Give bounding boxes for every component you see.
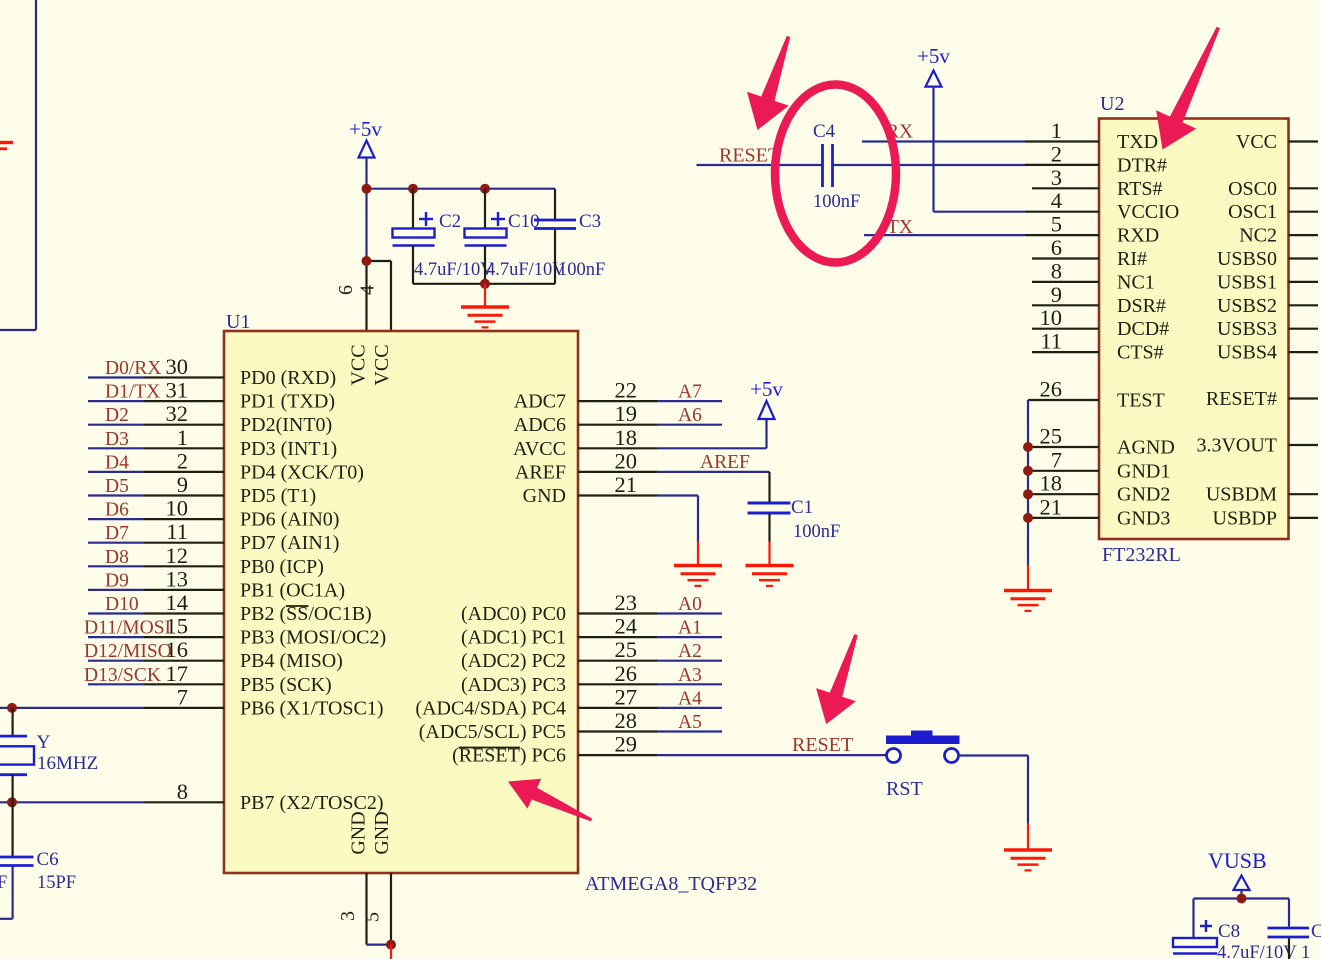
wire	[390, 945, 392, 959]
pin 10 PD6 (AIN0)	[166, 496, 340, 531]
svg-text:D11/MOSI: D11/MOSI	[84, 618, 171, 639]
wire	[88, 447, 224, 449]
svg-text:25: 25	[615, 637, 638, 662]
svg-text:AREF: AREF	[515, 461, 566, 483]
svg-text:C6: C6	[37, 849, 59, 870]
wire	[0, 707, 224, 709]
node	[386, 940, 396, 950]
pin 9 PD5 (T1)	[177, 472, 316, 507]
wire	[959, 756, 1029, 824]
svg-text:23: 23	[615, 590, 638, 615]
svg-text:VUSB: VUSB	[1208, 848, 1267, 873]
pin 21 GND	[523, 472, 637, 507]
svg-text:AGND: AGND	[1117, 437, 1175, 459]
wire	[1025, 211, 1099, 213]
wire	[578, 400, 722, 402]
svg-text:C1: C1	[791, 497, 813, 518]
node	[1237, 894, 1247, 904]
svg-text:21: 21	[615, 472, 638, 497]
annotation arrow	[508, 779, 592, 822]
svg-text:PB4 (MISO): PB4 (MISO)	[240, 650, 343, 672]
pin 9 DSR#	[1051, 282, 1166, 317]
pin 1 TXD	[1051, 118, 1158, 153]
wire	[1025, 140, 1099, 142]
wire	[88, 589, 224, 591]
svg-text:A0: A0	[678, 594, 702, 615]
wire	[365, 158, 367, 189]
wire	[1289, 328, 1319, 330]
svg-text:+5v: +5v	[750, 377, 783, 401]
svg-text:DSR#: DSR#	[1117, 295, 1166, 317]
ground	[1004, 565, 1052, 611]
svg-text:(ADC0) PC0: (ADC0) PC0	[461, 603, 566, 625]
wire	[1025, 164, 1099, 166]
wire	[934, 87, 1026, 212]
svg-text:5: 5	[362, 912, 384, 922]
svg-text:3: 3	[337, 911, 359, 921]
svg-text:USBDM: USBDM	[1206, 484, 1277, 506]
svg-text:PB7 (X2/TOSC2): PB7 (X2/TOSC2)	[240, 792, 384, 814]
wire	[1289, 304, 1319, 306]
wire	[578, 494, 657, 496]
svg-text:7: 7	[177, 684, 188, 709]
wire	[1028, 446, 1099, 448]
svg-text:(ADC3) PC3: (ADC3) PC3	[461, 674, 566, 696]
svg-text:D13/SCK: D13/SCK	[84, 665, 161, 686]
wire	[1289, 281, 1319, 283]
pin 32 PD2(INT0)	[166, 401, 333, 436]
svg-text:A7: A7	[678, 382, 702, 403]
svg-text:USBS3: USBS3	[1217, 318, 1277, 340]
svg-text:TEST: TEST	[1117, 390, 1165, 412]
pin 20 AREF	[515, 448, 637, 483]
wire	[578, 447, 657, 449]
ground	[1004, 824, 1052, 871]
svg-text:GND2: GND2	[1117, 484, 1170, 506]
mcu U1	[224, 331, 578, 873]
svg-text:24: 24	[615, 614, 638, 639]
svg-text:PB5 (SCK): PB5 (SCK)	[240, 674, 332, 696]
pin 25 AGND	[1040, 424, 1175, 459]
svg-text:21: 21	[1040, 494, 1063, 519]
wire	[88, 542, 224, 544]
pin 17 PB5 (SCK)	[166, 661, 332, 696]
svg-text:D7: D7	[105, 523, 129, 544]
svg-text:D9: D9	[105, 570, 129, 591]
wire	[88, 636, 224, 638]
wire	[578, 636, 722, 638]
pin 2 DTR#	[1051, 141, 1167, 176]
pin 27 (ADC4/SDA) PC4	[415, 684, 637, 719]
wire	[1028, 493, 1099, 495]
pin 19 ADC6	[514, 401, 637, 436]
wire	[1289, 493, 1319, 495]
svg-text:+5v: +5v	[917, 44, 950, 68]
svg-text:USBDP: USBDP	[1213, 507, 1277, 529]
pin 28 (ADC5/SCL) PC5	[419, 708, 637, 743]
capacitor C6	[0, 802, 76, 919]
pin 6 RI#	[1051, 235, 1147, 270]
wire	[1289, 397, 1319, 399]
pin 24 (ADC1) PC1	[461, 614, 637, 649]
svg-text:16MHZ: 16MHZ	[37, 753, 98, 774]
wire	[657, 419, 767, 448]
svg-text:9: 9	[177, 472, 188, 497]
svg-text:D5: D5	[105, 476, 129, 497]
wire	[1032, 187, 1099, 189]
wire	[657, 472, 770, 502]
pin 14 PB2 (SS/OC1B)	[166, 590, 372, 625]
svg-text:USBS0: USBS0	[1217, 248, 1277, 270]
wire	[88, 518, 224, 520]
capacitor C4	[813, 121, 860, 212]
svg-text:U1: U1	[226, 311, 250, 333]
svg-text:A2: A2	[678, 641, 702, 662]
svg-text:FT232RL: FT232RL	[1102, 544, 1181, 566]
node	[362, 256, 372, 266]
svg-text:D0/RX: D0/RX	[105, 358, 161, 379]
wire	[1027, 400, 1029, 565]
node	[1023, 513, 1033, 523]
svg-text:VCC: VCC	[348, 344, 370, 385]
svg-text:ADC7: ADC7	[514, 391, 566, 413]
wire	[88, 400, 224, 402]
svg-text:100nF: 100nF	[793, 522, 840, 542]
svg-text:DCD#: DCD#	[1117, 318, 1169, 340]
svg-text:NC2: NC2	[1239, 225, 1277, 247]
wire	[697, 164, 823, 166]
wire	[578, 471, 657, 473]
wire	[578, 707, 722, 709]
svg-text:ATMEGA8_TQFP32: ATMEGA8_TQFP32	[585, 873, 757, 895]
svg-text:RESET: RESET	[719, 145, 780, 167]
svg-text:5: 5	[1051, 212, 1062, 237]
svg-text:11: 11	[1040, 329, 1062, 354]
pin 26 (ADC3) PC3	[461, 661, 637, 696]
wire	[1289, 517, 1319, 519]
wire	[367, 188, 556, 190]
pin 25 (ADC2) PC2	[461, 637, 637, 672]
pin 3 RTS#	[1051, 165, 1163, 200]
svg-text:D2: D2	[105, 405, 129, 426]
pin 18 AVCC	[513, 425, 637, 460]
wire	[0, 801, 224, 803]
svg-text:9: 9	[1051, 282, 1062, 307]
svg-text:D6: D6	[105, 500, 129, 521]
svg-text:4.7uF/10V 1: 4.7uF/10V 1	[1217, 943, 1310, 959]
svg-text:VCC: VCC	[1236, 131, 1277, 153]
svg-text:12: 12	[166, 543, 189, 568]
svg-text:C3: C3	[579, 211, 601, 232]
pin 30 PD0 (RXD)	[166, 354, 337, 389]
wire	[88, 683, 224, 685]
svg-text:4: 4	[357, 285, 379, 295]
node	[7, 703, 17, 713]
wire	[578, 660, 722, 662]
wire	[1289, 187, 1319, 189]
pin 31 PD1 (TXD)	[166, 378, 336, 413]
wire	[1289, 257, 1319, 259]
svg-text:4.7uF/10V: 4.7uF/10V	[414, 260, 494, 280]
power +5v	[917, 44, 950, 87]
wire	[1028, 517, 1099, 519]
wire	[578, 612, 722, 614]
wire	[88, 494, 224, 496]
svg-text:PB0 (ICP): PB0 (ICP)	[240, 556, 324, 578]
wire	[657, 496, 698, 542]
svg-text:GND: GND	[523, 485, 566, 507]
svg-text:15PF: 15PF	[37, 873, 76, 893]
crystal Y 16MHZ	[0, 708, 98, 802]
svg-text:A4: A4	[678, 688, 702, 709]
wire	[1032, 281, 1099, 283]
svg-text:OSC1: OSC1	[1228, 201, 1277, 223]
svg-text:USBS1: USBS1	[1217, 271, 1277, 293]
svg-text:25: 25	[1040, 424, 1063, 449]
capacitor C1	[748, 497, 841, 542]
wire	[578, 424, 722, 426]
svg-text:PD0 (RXD): PD0 (RXD)	[240, 367, 336, 389]
svg-text:AVCC: AVCC	[513, 438, 566, 460]
svg-text:28: 28	[615, 708, 638, 733]
svg-text:8: 8	[177, 779, 188, 804]
wire	[833, 164, 1026, 166]
svg-text:15PF: 15PF	[0, 873, 7, 893]
node	[1023, 466, 1033, 476]
pin 23 (ADC0) PC0	[461, 590, 637, 625]
pin 7 PB6 (X1/TOSC1)	[177, 684, 384, 719]
svg-text:(ADC1) PC1: (ADC1) PC1	[461, 627, 566, 649]
svg-text:ADC6: ADC6	[514, 414, 566, 436]
svg-text:31: 31	[166, 378, 189, 403]
wire	[88, 471, 224, 473]
pin 11 PD7 (AIN1)	[166, 519, 339, 554]
wire	[1194, 890, 1290, 938]
svg-text:RESET: RESET	[792, 734, 853, 756]
svg-text:6: 6	[335, 285, 357, 295]
capacitor C2	[393, 189, 495, 284]
svg-text:17: 17	[166, 661, 189, 686]
wire	[1025, 234, 1099, 236]
wire	[1028, 399, 1099, 401]
pushbutton RST	[886, 731, 960, 801]
svg-text:(ADC4/SDA) PC4: (ADC4/SDA) PC4	[415, 697, 566, 719]
svg-text:RESET#: RESET#	[1206, 388, 1277, 410]
svg-text:3.3VOUT: 3.3VOUT	[1196, 435, 1277, 457]
svg-text:D1/TX: D1/TX	[105, 382, 160, 403]
pin 26 TEST	[1040, 377, 1165, 412]
svg-text:DTR#: DTR#	[1117, 154, 1167, 176]
pin 15 PB3 (MOSI/OC2)	[166, 614, 387, 649]
svg-text:CTS#: CTS#	[1117, 342, 1164, 364]
wire	[1289, 444, 1319, 446]
wire	[864, 234, 1025, 236]
wire	[1032, 304, 1099, 306]
svg-text:32: 32	[166, 401, 189, 426]
pin 5 RXD	[1051, 212, 1159, 247]
wire	[367, 261, 392, 331]
svg-text:RST: RST	[886, 778, 923, 800]
svg-text:GND: GND	[371, 811, 393, 854]
svg-text:29: 29	[615, 732, 638, 757]
svg-text:AREF: AREF	[700, 452, 750, 473]
power +5v	[750, 377, 783, 419]
node	[1023, 489, 1033, 499]
svg-text:3: 3	[1051, 165, 1062, 190]
capacitor C3	[534, 189, 605, 284]
svg-text:1: 1	[177, 425, 188, 450]
capacitor C9	[1268, 921, 1321, 959]
svg-text:OSC0: OSC0	[1228, 178, 1277, 200]
svg-text:GND1: GND1	[1117, 460, 1170, 482]
svg-text:RXD: RXD	[1117, 225, 1159, 247]
wire	[578, 683, 722, 685]
node	[362, 184, 372, 194]
svg-text:(ADC2) PC2: (ADC2) PC2	[461, 650, 566, 672]
svg-text:PD2(INT0): PD2(INT0)	[240, 414, 332, 436]
svg-text:GND: GND	[348, 811, 370, 854]
wire	[413, 283, 555, 285]
pin 2 PD4 (XCK/T0)	[177, 448, 364, 483]
pin 1 PD3 (INT1)	[177, 425, 337, 460]
svg-text:6: 6	[1051, 235, 1062, 260]
svg-text:C: C	[1311, 921, 1321, 942]
node	[7, 797, 17, 807]
svg-text:PD7 (AIN1): PD7 (AIN1)	[240, 532, 339, 554]
wire	[1032, 328, 1099, 330]
node	[480, 279, 490, 289]
svg-text:18: 18	[1040, 471, 1063, 496]
wire	[1289, 234, 1319, 236]
wire	[88, 660, 224, 662]
annotation arrow	[747, 36, 790, 130]
wire	[1289, 351, 1319, 353]
svg-text:11: 11	[166, 519, 188, 544]
wire	[657, 754, 887, 756]
wire	[1289, 211, 1319, 213]
svg-text:U2: U2	[1100, 93, 1124, 115]
power VUSB	[1208, 848, 1267, 890]
svg-text:D4: D4	[105, 452, 129, 473]
svg-text:NC1: NC1	[1117, 271, 1155, 293]
svg-text:20: 20	[615, 448, 638, 473]
svg-text:PB1 (OC1A): PB1 (OC1A)	[240, 579, 345, 601]
ground	[674, 542, 722, 586]
wire	[88, 424, 224, 426]
pin 8 PB7 (X2/TOSC2)	[177, 779, 384, 814]
wire	[365, 189, 367, 261]
svg-text:13: 13	[166, 566, 189, 591]
wire	[1032, 351, 1099, 353]
wire	[88, 376, 224, 378]
pin 4 VCCIO	[1051, 188, 1179, 223]
svg-text:2: 2	[177, 448, 188, 473]
svg-text:PD6 (AIN0): PD6 (AIN0)	[240, 509, 339, 531]
node	[480, 184, 490, 194]
annotation ellipse	[775, 85, 896, 263]
overline SS	[286, 605, 309, 607]
wire	[862, 140, 1025, 142]
ground	[0, 143, 13, 149]
svg-text:RI#: RI#	[1117, 248, 1147, 270]
svg-text:27: 27	[615, 684, 638, 709]
node	[408, 184, 418, 194]
svg-text:Y: Y	[37, 732, 51, 753]
svg-text:(ADC5/SCL) PC5: (ADC5/SCL) PC5	[419, 721, 566, 743]
svg-text:VCCIO: VCCIO	[1117, 201, 1179, 223]
wire	[578, 754, 657, 756]
svg-text:D12/MISO: D12/MISO	[84, 641, 172, 662]
svg-text:PD1 (TXD): PD1 (TXD)	[240, 391, 335, 413]
svg-text:26: 26	[615, 661, 638, 686]
svg-text:VCC: VCC	[371, 344, 393, 385]
svg-text:A6: A6	[678, 405, 702, 426]
svg-text:PB3 (MOSI/OC2): PB3 (MOSI/OC2)	[240, 627, 386, 649]
svg-text:100nF: 100nF	[558, 260, 605, 280]
pin 16 PB4 (MISO)	[166, 637, 343, 672]
wire	[367, 873, 392, 945]
pin 21 GND3	[1040, 494, 1171, 529]
wire	[578, 730, 722, 732]
wire	[1289, 140, 1319, 142]
svg-text:GND3: GND3	[1117, 507, 1170, 529]
svg-text:A1: A1	[678, 618, 702, 639]
pin 7 GND1	[1051, 447, 1171, 482]
svg-text:C4: C4	[813, 121, 836, 142]
svg-text:RTS#: RTS#	[1117, 178, 1162, 200]
pin 18 GND2	[1040, 471, 1171, 506]
ground	[461, 284, 509, 328]
svg-text:PB6 (X1/TOSC1): PB6 (X1/TOSC1)	[240, 697, 384, 719]
svg-text:8: 8	[1051, 258, 1062, 283]
svg-text:TXD: TXD	[1117, 131, 1158, 153]
pin 22 ADC7	[514, 378, 637, 413]
svg-text:USBS4: USBS4	[1217, 342, 1277, 364]
pin 29 (RESET) PC6	[452, 732, 637, 767]
svg-text:D3: D3	[105, 429, 129, 450]
ground	[746, 542, 794, 586]
svg-text:22: 22	[615, 378, 638, 403]
svg-text:100nF: 100nF	[813, 192, 860, 212]
svg-text:10: 10	[166, 496, 189, 521]
svg-text:19: 19	[615, 401, 638, 426]
svg-text:+5v: +5v	[349, 117, 382, 141]
svg-text:10: 10	[1040, 305, 1063, 330]
svg-text:A3: A3	[678, 665, 702, 686]
wire	[0, 0, 36, 330]
svg-text:2: 2	[1051, 141, 1062, 166]
pin 8 NC1	[1051, 258, 1155, 293]
svg-text:PD3 (INT1): PD3 (INT1)	[240, 438, 337, 460]
pin 13 PB1 (OC1A)	[166, 566, 346, 601]
ic U2	[1099, 119, 1289, 540]
wire	[88, 565, 224, 567]
svg-text:30: 30	[166, 354, 189, 379]
node	[1023, 442, 1033, 452]
svg-text:7: 7	[1051, 447, 1062, 472]
pin 11 CTS#	[1040, 329, 1163, 364]
wire	[1032, 257, 1099, 259]
annotation arrow	[1156, 27, 1220, 150]
svg-text:C8: C8	[1218, 921, 1240, 942]
overline RESET	[459, 747, 520, 749]
svg-text:A5: A5	[678, 712, 702, 733]
svg-text:C2: C2	[439, 211, 461, 232]
capacitor C8	[1173, 920, 1310, 959]
svg-text:D8: D8	[105, 547, 129, 568]
pin 12 PB0 (ICP)	[166, 543, 324, 578]
wire	[1028, 470, 1099, 472]
